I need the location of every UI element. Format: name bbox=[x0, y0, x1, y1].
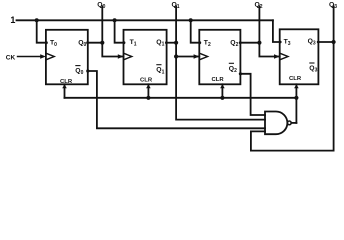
wire: Q1 split to CK of U2 bbox=[176, 56, 199, 58]
wire: U1 Q output to node Q1 bbox=[167, 42, 177, 44]
pin dot: U0 T input bbox=[45, 41, 48, 44]
svg-text:Q3: Q3 bbox=[308, 38, 316, 47]
wire: U3 Q output to node Q3 bbox=[318, 41, 333, 43]
pin dot: U1 Q output bbox=[165, 41, 168, 44]
wire: CLR drop U2 bbox=[221, 84, 223, 98]
junction: Q1 / CK2 split bbox=[174, 54, 178, 58]
wire: node Q2 terminal riser and feed to CK of U3 bbox=[259, 6, 279, 56]
clock wedge U0 bbox=[46, 53, 54, 60]
junction: CLR bus / U1 drop bbox=[146, 96, 150, 100]
pin dot: U2 Q-bar output bbox=[239, 72, 242, 75]
CLR arrowhead U3 bbox=[294, 84, 299, 88]
svg-text:CLR: CLR bbox=[289, 76, 302, 82]
svg-text:1: 1 bbox=[10, 15, 15, 25]
wire: CK input line bbox=[18, 56, 42, 58]
svg-text:T0: T0 bbox=[50, 39, 57, 48]
wire: node Q0 terminal riser and feed to CK of U1 bbox=[102, 6, 123, 56]
junction: node Q2 bbox=[257, 41, 261, 45]
CLR arrowhead U0 bbox=[62, 84, 67, 88]
wire: rail end drop to T input of U3 bbox=[273, 20, 280, 42]
svg-text:T3: T3 bbox=[284, 38, 291, 47]
junction: rail / U1 T drop bbox=[113, 18, 117, 22]
wire: U2 Q-bar output down to NAND input bbox=[240, 74, 265, 115]
clock arrowhead U2 bbox=[194, 54, 200, 59]
wire: rail drop to T input of U1 bbox=[115, 20, 124, 42]
pin dot: U3 Q output bbox=[317, 41, 320, 44]
wire: CLR drop U1 bbox=[147, 84, 149, 98]
junction: node Q1 bbox=[174, 41, 178, 45]
pin dot: U1 T input bbox=[123, 41, 126, 44]
wire: U0 Q output to node Q0 bbox=[88, 42, 103, 44]
svg-text:CLR: CLR bbox=[212, 77, 225, 83]
svg-text:Q1: Q1 bbox=[156, 39, 164, 48]
overbar: U0 Q0-bar bbox=[75, 65, 80, 67]
wire: U0 Q-bar output down to NAND input bbox=[88, 71, 265, 128]
overbar: U2 Q2-bar bbox=[229, 62, 234, 64]
svg-text:CLR: CLR bbox=[60, 79, 73, 85]
flip-flop U1 box bbox=[124, 30, 167, 85]
svg-text:Q0: Q0 bbox=[78, 39, 86, 48]
wire: CLR drop U0 bbox=[64, 84, 66, 98]
overbar: U3 Q3-bar bbox=[309, 62, 314, 64]
svg-text:T1: T1 bbox=[130, 39, 137, 48]
clock wedge U3 bbox=[280, 53, 288, 60]
flip-flop U3 box bbox=[280, 29, 319, 84]
svg-text:CLR: CLR bbox=[140, 78, 153, 84]
wire: logic-1 rail across top bbox=[17, 19, 273, 21]
wire: CLR drop U3 joined with NAND output riser bbox=[295, 84, 297, 123]
junction: node Q0 bbox=[100, 41, 104, 45]
svg-text:Q0: Q0 bbox=[75, 68, 83, 77]
NAND gate G1 output bubble bbox=[287, 121, 291, 125]
wire: CLR bus bbox=[65, 97, 297, 99]
wire: U2 Q output to node Q2 bbox=[240, 42, 259, 44]
svg-text:Q2: Q2 bbox=[229, 65, 237, 74]
svg-text:T2: T2 bbox=[204, 39, 211, 48]
wire: node Q1 terminal riser, down to NAND input bbox=[176, 6, 265, 119]
junction: CLR bus / U3 drop and NAND riser bbox=[294, 96, 298, 100]
svg-text:Q1: Q1 bbox=[156, 67, 164, 76]
svg-text:Q3: Q3 bbox=[309, 65, 317, 74]
overbar: U1 Q1-bar bbox=[156, 64, 161, 66]
clock arrowhead U0 bbox=[40, 54, 46, 59]
flip-flop U2 box bbox=[199, 30, 240, 85]
clock wedge U2 bbox=[199, 53, 207, 60]
clock arrowhead U1 bbox=[118, 54, 124, 59]
junction: rail / U0 T drop bbox=[35, 18, 39, 22]
svg-text:CK: CK bbox=[6, 54, 16, 61]
wire: node Q3 terminal riser and feedback loop to NAND input bbox=[251, 6, 334, 150]
pin dot: U2 Q output bbox=[239, 41, 242, 44]
wire: rail drop to T input of U2 bbox=[191, 20, 200, 42]
wire: NAND output to CLR riser bbox=[291, 122, 296, 124]
pin dot: U0 Q output bbox=[86, 41, 89, 44]
clock arrowhead U3 bbox=[274, 54, 280, 59]
junction: node Q3 bbox=[332, 40, 336, 44]
pin dot: U3 T input bbox=[279, 41, 282, 44]
CLR arrowhead U1 bbox=[146, 84, 151, 88]
pin dot: U0 Q-bar output bbox=[86, 69, 89, 72]
NAND gate G1 body bbox=[265, 112, 287, 135]
CLR arrowhead U2 bbox=[220, 84, 225, 88]
pin dot: U2 T input bbox=[198, 41, 201, 44]
clock wedge U1 bbox=[124, 53, 132, 60]
junction: rail / U2 T drop bbox=[189, 18, 193, 22]
svg-text:Q2: Q2 bbox=[230, 39, 238, 48]
junction: CLR bus / U2 drop bbox=[220, 96, 224, 100]
wire: rail drop to T input of U0 bbox=[37, 20, 46, 42]
flip-flop U0 box bbox=[46, 30, 88, 85]
